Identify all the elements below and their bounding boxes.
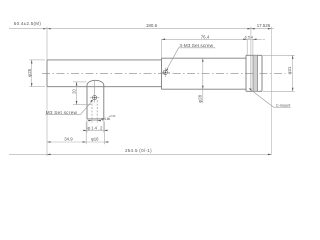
svg-text:50.4±2.5(M): 50.4±2.5(M) xyxy=(14,21,42,26)
dim 4 ext xyxy=(252,39,254,55)
svg-text:φ16: φ16 xyxy=(91,137,99,142)
dim 50.4 line xyxy=(9,28,47,30)
dim phi31 ext bottom xyxy=(263,90,295,92)
flange reference line xyxy=(250,55,252,91)
dim phi28 line xyxy=(202,58,204,103)
dim tail dash xyxy=(263,38,265,40)
dim phi4.8 line xyxy=(88,120,101,122)
svg-text:180.6: 180.6 xyxy=(146,23,158,28)
dim phi16 ext lines xyxy=(85,122,87,145)
svg-text:17.526: 17.526 xyxy=(257,23,271,28)
dim phi14.2 ext lines xyxy=(86,120,88,133)
dim phi31 line xyxy=(292,55,294,91)
M3 set screw circle xyxy=(90,96,99,100)
dim phi25 line xyxy=(31,60,33,87)
dim 17.526 arrows xyxy=(251,28,255,30)
set screw post body xyxy=(87,85,104,119)
svg-text:φ28: φ28 xyxy=(198,94,203,102)
dim phi31 arrows xyxy=(292,55,294,59)
svg-text:3-M3 Set screw: 3-M3 Set screw xyxy=(179,43,213,48)
dim phi14.2 line xyxy=(83,129,108,131)
svg-text:C-mount: C-mount xyxy=(276,103,292,107)
3-M3 set screw circle xyxy=(161,68,170,77)
svg-text:4: 4 xyxy=(251,36,253,40)
dim 20 ext top xyxy=(73,81,87,83)
step face xyxy=(161,58,163,89)
svg-text:20: 20 xyxy=(71,89,76,94)
dim 34.9 line with phi16 chain xyxy=(47,141,109,143)
post center mark xyxy=(94,81,96,103)
set screw post dome xyxy=(87,80,104,85)
extension line C-mount ref xyxy=(250,27,252,56)
svg-text:76.4: 76.4 xyxy=(201,35,210,40)
dim 20 arrows xyxy=(76,82,78,86)
dim 76.4 arrows xyxy=(162,39,166,41)
svg-text:M3 Set screw: M3 Set screw xyxy=(46,110,78,115)
tube phi25 body xyxy=(47,60,162,87)
dim 180.6 arrows xyxy=(47,28,50,30)
svg-text:6.5: 6.5 xyxy=(245,36,250,40)
svg-text:34.9: 34.9 xyxy=(64,137,73,142)
dim 180.6 line xyxy=(47,28,251,30)
dim 20 ext bottom xyxy=(73,104,91,106)
dim phi25 ext bottom xyxy=(29,86,45,88)
svg-text:φ14.2: φ14.2 xyxy=(87,126,103,131)
dim 6.5 ext xyxy=(246,39,248,55)
extension line tube left face xyxy=(46,27,48,60)
label C-mount leader xyxy=(249,89,273,108)
dim 254.5 arrows xyxy=(47,154,51,156)
dim 254.5 line xyxy=(9,153,272,155)
dim phi31 ext top xyxy=(263,54,295,56)
dim phi28 arrows xyxy=(202,58,204,62)
C-mount ring band xyxy=(253,56,258,92)
extension line image plane xyxy=(271,27,273,155)
dim 34.9 arrows xyxy=(47,141,51,143)
dim 76.4 extension at step xyxy=(161,39,163,58)
dim phi25 arrows xyxy=(31,60,33,64)
svg-text:φ31: φ31 xyxy=(287,66,292,74)
svg-text:φ25: φ25 xyxy=(27,68,32,77)
dim 4 arrow xyxy=(253,39,257,41)
dim 76.4 line xyxy=(162,38,262,40)
label M3 set screw leader xyxy=(80,100,93,114)
dim phi4.8 arrows xyxy=(88,120,92,122)
C-mount flange phi31 xyxy=(246,55,262,91)
tube phi28 body xyxy=(162,58,247,89)
dim phi16 arrow xyxy=(105,141,109,143)
dim phi4.8 ext lines xyxy=(91,119,93,123)
post hidden hole lines xyxy=(92,100,97,119)
dim 20 line xyxy=(76,82,78,105)
dim 17.526 line xyxy=(251,28,274,30)
dim phi25 ext top xyxy=(29,59,45,61)
svg-text:254.5 (0/-1): 254.5 (0/-1) xyxy=(125,148,152,153)
dim phi14.2 arrows xyxy=(83,130,87,132)
label 3-M3 set screw leader xyxy=(166,48,179,71)
centerline xyxy=(42,73,286,75)
dim 50.4 arrow xyxy=(43,28,46,30)
